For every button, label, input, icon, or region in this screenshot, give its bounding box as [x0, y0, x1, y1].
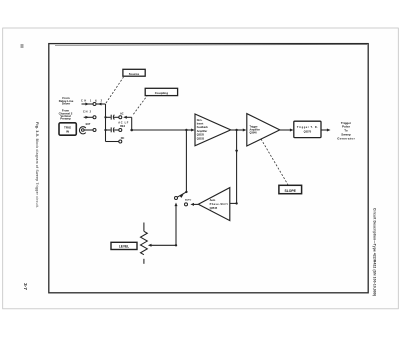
svg-text:Amplifier: Amplifier [197, 130, 207, 133]
svg-text:Invert: Invert [197, 123, 204, 126]
svg-text:IN: IN [66, 130, 69, 134]
svg-text:Phase-Shift: Phase-Shift [210, 203, 228, 206]
svg-text:EXT: EXT [86, 123, 91, 126]
svg-text:Coupling: Coupling [155, 91, 169, 95]
svg-text:AC LF: AC LF [118, 121, 128, 124]
svg-text:LEVEL: LEVEL [119, 245, 129, 249]
svg-text:AC: AC [120, 112, 124, 115]
svg-text:Q3540: Q3540 [250, 131, 258, 134]
svg-text:3-7: 3-7 [22, 283, 28, 290]
svg-text:Q3575: Q3575 [304, 130, 312, 133]
svg-text:Q3545: Q3545 [210, 207, 218, 210]
svg-text:Driver: Driver [62, 102, 71, 106]
svg-text:Circuit Description—Type 422/R: Circuit Description—Type 422/R422 (SN 10… [373, 208, 377, 296]
svg-text:Q3533: Q3533 [197, 137, 205, 140]
svg-text:Fig. 3-5. Block diagram of Swe: Fig. 3-5. Block diagram of Sweep Trigger… [35, 122, 39, 208]
svg-text:Source: Source [129, 72, 140, 76]
svg-text:Trigger T. D.: Trigger T. D. [297, 126, 318, 129]
svg-text:Auto: Auto [210, 199, 216, 202]
svg-text:SLOPE: SLOPE [284, 189, 296, 193]
svg-text:DC: DC [121, 137, 125, 140]
svg-text:REJ: REJ [120, 125, 125, 128]
svg-text:Generator: Generator [337, 136, 355, 140]
svg-text:Non-: Non- [197, 119, 203, 122]
svg-text:Preamp: Preamp [60, 117, 71, 121]
svg-text:CH 2: CH 2 [83, 111, 92, 114]
svg-text:Feedback: Feedback [197, 126, 209, 129]
svg-text:AUTO: AUTO [185, 199, 191, 202]
svg-text:Q3525: Q3525 [197, 134, 205, 137]
